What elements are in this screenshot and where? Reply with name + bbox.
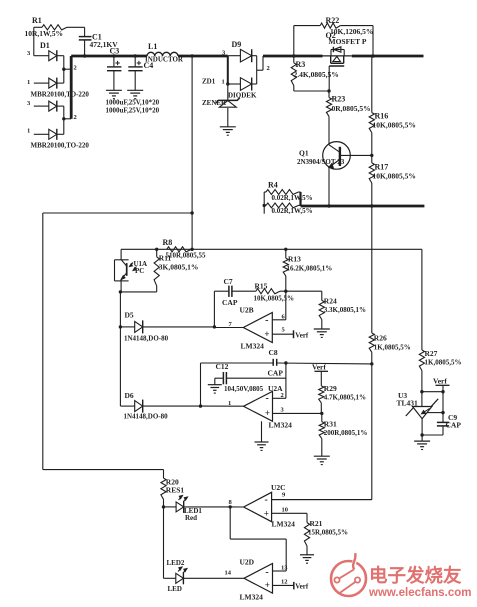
svg-text:R15: R15 [255, 282, 268, 291]
svg-text:0.02R,1W,5%: 0.02R,1W,5% [272, 194, 313, 202]
svg-text:C12: C12 [216, 362, 229, 371]
resistor R1 [25, 16, 85, 56]
svg-text:C3: C3 [110, 47, 120, 56]
svg-text:3: 3 [27, 50, 31, 57]
svg-text:1K,0805,5%: 1K,0805,5% [374, 344, 411, 352]
svg-text:D1: D1 [40, 41, 50, 50]
wire top bus left [71, 55, 147, 58]
svg-text:10K,0805,5%: 10K,0805,5% [373, 172, 416, 181]
resistor R16 [369, 56, 416, 155]
C3 C4 value labels [106, 98, 160, 114]
wire C8 line [201, 362, 372, 365]
watermark logo [331, 553, 366, 596]
wire R27 feed [421, 249, 423, 350]
op-amp U2C [229, 483, 372, 529]
wire left rail vertical [43, 56, 194, 470]
wire LED rail [163, 507, 165, 578]
wire U2C pin9 net [272, 364, 372, 500]
ground at U3 [414, 441, 430, 449]
diode D9 [222, 40, 270, 100]
svg-text:R29: R29 [324, 384, 337, 393]
capacitor C4 [128, 54, 153, 90]
diode D1 upper pair [27, 41, 89, 99]
svg-text:CAP: CAP [268, 368, 284, 377]
svg-text:LM324: LM324 [269, 421, 293, 430]
svg-text:1N4148,DO-80: 1N4148,DO-80 [124, 413, 169, 421]
svg-text:U2B: U2B [240, 306, 254, 315]
svg-text:R21: R21 [310, 519, 323, 528]
resistor R26 [369, 206, 411, 366]
svg-text:R1: R1 [32, 16, 42, 25]
svg-text:10R,1W,5%: 10R,1W,5% [25, 29, 63, 38]
svg-text:10: 10 [282, 507, 289, 514]
optocoupler U1A [115, 249, 148, 292]
wire top bus right [263, 55, 424, 58]
svg-text:www.elecfans.com: www.elecfans.com [368, 587, 471, 599]
capacitor C9 [422, 392, 461, 435]
svg-text:3K,0805,1%: 3K,0805,1% [159, 263, 199, 272]
svg-text:10K,0805,5%: 10K,0805,5% [373, 121, 416, 130]
svg-text:Red: Red [185, 514, 197, 522]
wire C8 corner down [199, 363, 202, 408]
resistor R21 [300, 513, 348, 563]
svg-text:2: 2 [74, 114, 77, 121]
diode D5 [120, 311, 216, 343]
wire LED1 node to U2D pin13 [230, 507, 286, 571]
capacitor C12 [215, 362, 286, 393]
svg-text:13: 13 [281, 565, 288, 572]
wire C8 node to pin2 [273, 363, 286, 398]
svg-text:R23: R23 [332, 95, 346, 104]
svg-text:Verf: Verf [312, 362, 326, 371]
svg-text:MOSFET P: MOSFET P [329, 37, 367, 46]
watermark text [368, 565, 471, 599]
svg-text:-: - [265, 567, 268, 578]
resistor R29 [319, 384, 366, 413]
resistor R15 [254, 282, 294, 303]
svg-text:15R,0805,5%: 15R,0805,5% [308, 528, 348, 536]
svg-text:+: + [265, 408, 270, 418]
svg-text:CAP: CAP [222, 298, 238, 307]
svg-text:104,50V,0805: 104,50V,0805 [224, 385, 264, 393]
svg-text:TL431: TL431 [397, 398, 419, 407]
wire rail U1A to D5 [119, 292, 122, 329]
svg-text:0.02R,1W,5%: 0.02R,1W,5% [272, 207, 313, 215]
ground at R24 [314, 329, 330, 337]
svg-text:+: + [265, 580, 270, 590]
svg-text:R26: R26 [374, 334, 387, 343]
svg-text:200R,0805,1%: 200R,0805,1% [324, 429, 368, 437]
svg-text:+: + [264, 508, 269, 518]
op-amp U2A [228, 384, 323, 442]
op-amp U2D [225, 558, 309, 602]
resistor R17 [369, 155, 416, 206]
svg-text:MBR20100,TO-220: MBR20100,TO-220 [31, 91, 90, 99]
LED LED2 [164, 559, 245, 593]
capacitor C8 [268, 348, 288, 377]
resistor R4 pair [263, 180, 313, 215]
svg-text:MBR20100,TO-220: MBR20100,TO-220 [31, 142, 90, 150]
svg-text:4.7K,0805,1%: 4.7K,0805,1% [324, 394, 366, 402]
ground at C12 [208, 385, 222, 393]
svg-text:Verf: Verf [295, 582, 309, 590]
svg-text:12: 12 [281, 578, 288, 585]
svg-text:3.3K,0805,1%: 3.3K,0805,1% [324, 306, 366, 314]
svg-text:D6: D6 [125, 391, 134, 400]
svg-text:LM324: LM324 [240, 593, 264, 602]
svg-text:U2C: U2C [271, 483, 286, 492]
svg-text:R11: R11 [159, 254, 172, 263]
svg-text:3: 3 [27, 100, 31, 107]
transistor Q1 [297, 142, 373, 206]
svg-text:U2D: U2D [240, 558, 255, 567]
svg-text:8: 8 [229, 499, 233, 506]
svg-text:510R,0805,55: 510R,0805,55 [166, 251, 207, 259]
ground at U2A [255, 442, 269, 450]
svg-text:R24: R24 [324, 297, 337, 306]
diode D6 [120, 327, 243, 421]
svg-text:L1: L1 [148, 42, 157, 51]
svg-text:-: - [265, 495, 268, 506]
svg-text:Verf: Verf [433, 377, 447, 386]
ground at C4 [127, 90, 143, 98]
capacitor C1 [79, 27, 118, 56]
inductor L1 [145, 42, 184, 64]
resistor R23 [326, 91, 370, 142]
svg-text:1: 1 [222, 78, 225, 85]
svg-text:2: 2 [74, 65, 77, 72]
svg-text:R17: R17 [375, 163, 389, 172]
wire rail to R8 [190, 213, 193, 251]
resistor R3 [291, 56, 339, 93]
wire C7 to U2B output [213, 291, 215, 327]
mosfet Q2 channel [323, 56, 352, 91]
capacitor C7 [214, 277, 256, 307]
svg-text:3: 3 [281, 407, 285, 414]
net Verf R29 [312, 362, 328, 386]
op-amp U2B [214, 291, 309, 350]
svg-text:1: 1 [228, 400, 231, 407]
svg-text:R22: R22 [326, 16, 340, 25]
svg-text:CAP: CAP [446, 421, 462, 430]
svg-text:-: - [266, 393, 269, 404]
svg-text:DIODEK: DIODEK [228, 92, 257, 100]
node C1/bus junction [83, 54, 86, 57]
resistor R24 [286, 291, 366, 329]
svg-text:1000uF,25V,10*20: 1000uF,25V,10*20 [106, 106, 160, 114]
LED LED1 [164, 496, 232, 523]
svg-text:0R,0805,5%: 0R,0805,5% [332, 104, 371, 113]
svg-text:Q1: Q1 [299, 149, 309, 158]
svg-text:R31: R31 [324, 419, 337, 428]
svg-text:R4: R4 [268, 180, 278, 189]
svg-text:5: 5 [282, 327, 286, 334]
svg-text:-: - [265, 315, 268, 326]
svg-text:10K,0805,5%: 10K,0805,5% [254, 295, 294, 303]
resistor R22 [292, 16, 375, 58]
resistor R27 [419, 349, 461, 393]
svg-text:D9: D9 [232, 40, 242, 49]
svg-text:14: 14 [225, 570, 232, 577]
svg-text:2: 2 [267, 65, 270, 72]
wire rectifier output vertical [70, 56, 73, 119]
svg-text:2N3904/SOT-23: 2N3904/SOT-23 [297, 158, 345, 166]
svg-text:16.2K,0805,1%: 16.2K,0805,1% [287, 264, 333, 272]
resistor R13 [283, 249, 332, 293]
svg-text:10K,1206,5%: 10K,1206,5% [330, 27, 373, 36]
diode D1 lower pair [27, 100, 89, 149]
svg-text:1N4148,DO-80: 1N4148,DO-80 [124, 334, 169, 342]
svg-text:R13: R13 [288, 255, 301, 264]
svg-text:1: 1 [27, 128, 30, 135]
net Verf TL431 [422, 377, 450, 394]
labels Q2 MOSFET P [326, 31, 367, 46]
mosfet Q2 body diode [331, 47, 344, 56]
svg-text:R16: R16 [375, 112, 389, 121]
svg-text:C8: C8 [269, 348, 278, 357]
svg-text:ZD1: ZD1 [202, 78, 216, 86]
ground at C3 [106, 90, 122, 98]
ground at ZD1 [220, 127, 236, 135]
wire bus after L1 [178, 54, 228, 57]
svg-text:RES1: RES1 [166, 485, 185, 494]
capacitor C3 [107, 47, 121, 91]
svg-text:1: 1 [27, 79, 30, 86]
svg-text:PC: PC [135, 267, 144, 275]
resistor R11 [119, 249, 199, 293]
wire feedback line [121, 248, 422, 251]
svg-text:Verf: Verf [295, 331, 309, 339]
svg-text:9: 9 [282, 492, 286, 499]
svg-text:D5: D5 [125, 311, 134, 320]
resistor R31 [314, 413, 368, 464]
svg-text:LM324: LM324 [241, 342, 265, 351]
svg-text:C7: C7 [224, 277, 233, 286]
resistor R8 [163, 238, 207, 259]
svg-text:2.4K,0805,5%: 2.4K,0805,5% [294, 70, 339, 79]
resistor R20 [161, 470, 184, 509]
svg-text:1K,0805,5%: 1K,0805,5% [425, 359, 462, 367]
svg-text:R3: R3 [296, 60, 306, 69]
svg-text:电子发烧友: 电子发烧友 [369, 565, 462, 586]
svg-text:U2A: U2A [268, 384, 283, 393]
svg-text:LM324: LM324 [272, 520, 296, 529]
wire lower bus [301, 204, 425, 207]
svg-text:LED2: LED2 [167, 559, 185, 567]
TL431 U3 [397, 391, 445, 441]
zener ZD1 [216, 84, 240, 127]
svg-text:R27: R27 [425, 349, 438, 358]
svg-text:LED: LED [168, 585, 182, 593]
svg-text:1000uF,25V,10*20: 1000uF,25V,10*20 [106, 98, 160, 106]
svg-text:ZENER: ZENER [202, 99, 227, 107]
svg-text:R8: R8 [163, 238, 173, 247]
label ZD1 [202, 78, 216, 86]
svg-text:+: + [264, 329, 269, 339]
label ZENER [202, 99, 227, 107]
